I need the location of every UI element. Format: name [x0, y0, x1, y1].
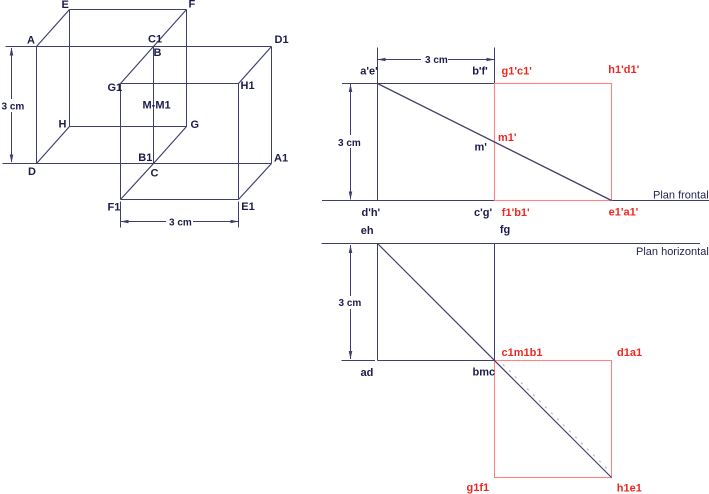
arrowhead right (bottom dim)	[231, 220, 239, 224]
svg-text:a'e': a'e'	[360, 66, 378, 78]
edge CG	[154, 127, 187, 164]
svg-text:eh: eh	[361, 225, 374, 237]
arrowhead right (top dim frontal)	[487, 58, 495, 62]
svg-text:Plan horizontal: Plan horizontal	[636, 246, 709, 258]
svg-text:f1'b1': f1'b1'	[502, 207, 530, 219]
label 3 cm (bottom dim)	[166, 215, 193, 227]
edge a'e'-b'f' top + left extension	[342, 83, 495, 85]
edge EF	[70, 9, 187, 11]
edge B1F1	[121, 164, 154, 200]
extension above b'f'	[494, 48, 496, 84]
arrowhead left (top dim frontal)	[378, 58, 386, 62]
arrowhead down (left dim frontal)	[349, 192, 353, 200]
extension left of ad	[342, 360, 376, 362]
edge AD	[36, 47, 38, 164]
svg-text:c'g': c'g'	[474, 207, 492, 219]
arrowhead down (left dim)	[10, 155, 14, 163]
arrowhead up (left dim frontal)	[349, 84, 353, 92]
edge HG	[70, 126, 187, 128]
svg-text:F1: F1	[108, 202, 121, 214]
svg-text:3 cm: 3 cm	[338, 138, 361, 149]
arrowhead up (left dim horizontal)	[349, 245, 353, 253]
edge D1A1	[271, 47, 273, 164]
edge F1E1	[121, 199, 239, 201]
svg-text:A: A	[27, 35, 35, 47]
label 3 cm (left dim)	[0, 99, 24, 112]
svg-text:D1: D1	[275, 34, 289, 46]
edge b'f'-c'g' right	[494, 84, 496, 201]
square c1m1b1 d1a1 h1e1 g1f1 (red, horizontal)	[495, 361, 612, 478]
svg-text:fg: fg	[500, 224, 510, 236]
svg-text:g1'c1': g1'c1'	[502, 66, 533, 78]
svg-text:b'f': b'f'	[472, 66, 488, 78]
svg-text:M-M1: M-M1	[143, 100, 171, 112]
svg-text:A1: A1	[274, 153, 288, 165]
edge BC / C1B1	[153, 47, 155, 164]
dimension line 3cm left horizontal	[350, 245, 352, 359]
svg-text:3 cm: 3 cm	[425, 55, 448, 66]
edge D1H1	[239, 47, 272, 84]
edge G1H1	[121, 83, 239, 85]
svg-text:h1e1: h1e1	[617, 482, 642, 494]
arrowhead left (bottom dim)	[121, 220, 129, 224]
edge AE	[37, 10, 70, 47]
svg-text:ad: ad	[361, 367, 374, 379]
svg-text:Plan frontal: Plan frontal	[653, 190, 709, 202]
edge BF	[154, 10, 187, 47]
svg-text:d1a1: d1a1	[617, 347, 642, 359]
extension above a'e'	[377, 48, 379, 84]
svg-text:B: B	[154, 47, 162, 59]
svg-text:E1: E1	[241, 201, 254, 213]
svg-text:d'h': d'h'	[362, 207, 381, 219]
svg-text:e1'a1': e1'a1'	[609, 207, 639, 219]
edge eh-ad left	[377, 244, 379, 361]
edge a'e'-d'h' left	[377, 84, 379, 201]
edge G1F1	[120, 84, 122, 200]
edge FG	[186, 10, 188, 127]
svg-text:bmc: bmc	[473, 367, 496, 379]
svg-text:c1m1b1: c1m1b1	[502, 347, 543, 359]
edge H1E1	[238, 84, 240, 200]
svg-text:g1f1: g1f1	[467, 482, 490, 494]
square g1'c1' h1'd1' e1'a1' f1'b1' (red, frontal)	[495, 84, 612, 201]
edge A1E1	[239, 164, 272, 200]
edge ad-bmc bottom	[378, 360, 495, 362]
svg-text:B1: B1	[138, 152, 152, 164]
dimension line 3cm below F1E1	[121, 221, 239, 223]
extension lines below F1 E1	[120, 202, 122, 228]
svg-text:H1: H1	[241, 80, 255, 92]
svg-text:h1'd1': h1'd1'	[608, 64, 639, 76]
wire long bottom line (ext + edge DC + edge B1A1)	[3, 163, 272, 165]
svg-text:m': m'	[475, 142, 488, 154]
svg-text:G1: G1	[108, 82, 123, 94]
svg-text:F: F	[189, 0, 196, 11]
wire long top line (ext + edge AB + edge C1D1)	[6, 46, 272, 48]
edge C1G1	[121, 47, 154, 84]
edge EH	[69, 10, 71, 127]
dimension line 3cm left of cube	[11, 48, 13, 162]
dimension line 3cm top	[378, 59, 495, 61]
edge DH	[37, 127, 70, 164]
svg-text:3 cm: 3 cm	[169, 218, 192, 229]
gray tick marks along diagonal	[503, 365, 612, 474]
dimension line 3cm left frontal	[350, 84, 352, 200]
wire ground line horizontal (long top line)	[322, 243, 701, 245]
arrowhead up (left dim)	[10, 47, 14, 55]
svg-text:C1: C1	[148, 34, 162, 46]
svg-text:3 cm: 3 cm	[339, 298, 362, 309]
svg-text:D: D	[28, 166, 36, 178]
svg-text:m1': m1'	[498, 132, 517, 144]
edge fg-bmc right	[494, 244, 496, 361]
svg-text:H: H	[59, 119, 67, 131]
label 3 cm (left dim frontal)	[336, 135, 361, 148]
diagonal eh to h1e1	[378, 244, 612, 478]
diagonal a'e' to e1'a1'	[378, 84, 612, 201]
arrowhead down (left dim horizontal)	[349, 351, 353, 359]
svg-text:E: E	[62, 0, 69, 11]
svg-text:C: C	[151, 168, 159, 180]
label 3 cm (left dim horizontal)	[336, 296, 361, 309]
wire ground line frontal (long bottom line)	[322, 200, 709, 202]
svg-text:G: G	[191, 119, 200, 131]
svg-text:3 cm: 3 cm	[2, 102, 25, 113]
label 3 cm (top dim frontal)	[421, 53, 448, 64]
